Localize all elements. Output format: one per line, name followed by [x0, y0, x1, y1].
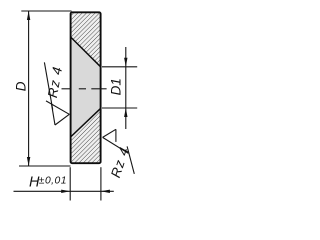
svg-text:Rz 4: Rz 4 — [108, 145, 132, 180]
svg-text:Rz 4: Rz 4 — [45, 65, 65, 99]
svg-text:D1: D1 — [109, 78, 124, 95]
svg-text:D: D — [13, 81, 28, 91]
svg-text:±0,01: ±0,01 — [39, 175, 67, 186]
